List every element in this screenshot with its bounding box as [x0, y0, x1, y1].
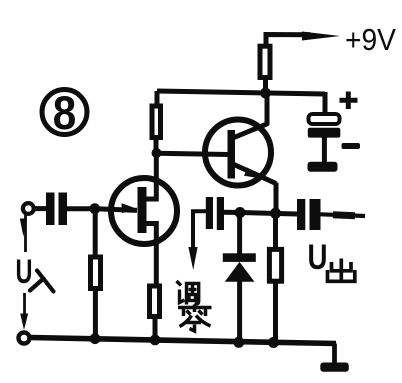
- transistor Q2 base bar: [228, 130, 236, 179]
- wire: R5 bottom to rail: [273, 284, 278, 344]
- +9V supply arrow: [302, 32, 340, 41]
- resistor R2 (drain load): [152, 106, 161, 138]
- C4 ground bar: [308, 162, 338, 172]
- chassis ground bar: [320, 363, 349, 372]
- wire: C4 bottom lead: [322, 138, 327, 163]
- wire: D1 anode to rail: [237, 282, 242, 343]
- wire: output node down to R5: [273, 214, 278, 249]
- capacitor C3 output coupling, left plate: [297, 199, 305, 230]
- node: zero-set node: [235, 207, 246, 218]
- node: output node: [270, 208, 281, 219]
- wire: R3 bottom to ground rail: [93, 291, 98, 339]
- U-in voltage arrow lower segment: [23, 293, 26, 318]
- svg-text:U: U: [16, 253, 33, 291]
- resistor R4 (source resistor): [150, 286, 160, 317]
- wire: R2 bottom to drain node: [154, 140, 159, 153]
- wire: Q1 source lead: [145, 224, 156, 285]
- resistor R5 (bias string): [269, 249, 281, 281]
- node: gate node: [89, 203, 100, 214]
- input terminal (bottom): [19, 333, 30, 344]
- node: rail at R3: [90, 333, 101, 344]
- input terminal (top): [23, 203, 34, 214]
- node: rail at D1: [233, 337, 244, 348]
- circled figure number 8: [42, 86, 87, 139]
- wire: top rail: [157, 91, 325, 94]
- wire: node down to D1: [237, 213, 242, 254]
- node: drain node: [152, 148, 162, 158]
- capacitor C2 right plate: [217, 197, 224, 230]
- wire: Q2 emitter diagonal: [234, 165, 276, 184]
- label - for C4: [342, 143, 361, 149]
- wire: gate node down to R3: [93, 209, 98, 255]
- resistor R3 (gate resistor): [91, 257, 101, 289]
- svg-text:+9V: +9V: [345, 22, 396, 57]
- wire: C2 to emitter node: [224, 210, 240, 215]
- wire: R4 bottom to rail: [153, 319, 158, 340]
- label + for C4: [340, 92, 358, 110]
- output stub thick segment: [333, 215, 355, 216]
- wire: C3 to output stub: [321, 214, 366, 216]
- transistor Q1 channel bar: [138, 187, 147, 233]
- wire: R1 top to +9V arrow: [266, 35, 310, 47]
- U-in voltage arrow upper segment: [24, 215, 27, 252]
- Q1 gate arrowhead: [122, 203, 136, 213]
- label ling (zero) CJK: [178, 305, 212, 332]
- node: rail at R5: [268, 337, 279, 348]
- capacitor C4 - plate (solid): [308, 128, 341, 138]
- wire: Q1 drain lead: [145, 153, 156, 199]
- diode D1 cathode bar: [223, 253, 256, 262]
- wire: drain node to Q2 base: [157, 153, 228, 154]
- wire: C1 to gate node: [67, 206, 95, 211]
- wire: Q2 collector vertical to rail: [265, 94, 270, 126]
- zero-set arrowhead: [188, 247, 197, 270]
- wire: node to output node: [240, 213, 297, 215]
- resistor R1 (supply feed): [260, 46, 270, 77]
- wire: ground rail: [30, 338, 336, 344]
- wire: Q2 emitter vertical to output node: [274, 183, 279, 215]
- wire: Q1 gate lead: [95, 209, 137, 211]
- capacitor C3 right plate: [310, 199, 321, 230]
- capacitor C1 input coupling, left plate: [46, 193, 55, 226]
- capacitor C4 electrolytic, + plate (hollow): [309, 114, 340, 124]
- svg-text:8: 8: [53, 86, 77, 139]
- node: top rail junction: [260, 88, 271, 99]
- label tiao (adjust) CJK: [177, 281, 199, 305]
- wire: rail to chassis ground: [332, 344, 337, 365]
- label U-in: CJK glyph RU (enter): [30, 271, 54, 292]
- wire: C2 left lead with corner: [193, 211, 206, 250]
- svg-text:U: U: [308, 238, 328, 277]
- diode D1 triangle: [225, 262, 255, 282]
- wire: R1 bottom to top rail: [263, 80, 268, 93]
- transistor Q1 (JFET) body: [111, 178, 177, 244]
- wire: top rail down to R2: [155, 91, 160, 104]
- wire: Q2 collector diagonal: [234, 124, 268, 138]
- capacitor C1 right plate: [59, 193, 68, 226]
- capacitor C2 (zero-set), left plate: [206, 197, 213, 229]
- Q2 emitter arrowhead: [244, 168, 263, 179]
- wire: top rail corner down to C4: [323, 92, 328, 116]
- label U-out: CJK glyph CHU (out): [328, 259, 355, 282]
- wire: terminal to C1: [35, 206, 48, 211]
- transistor Q2 (BJT) body: [205, 120, 271, 186]
- node: rail at R4: [150, 335, 161, 346]
